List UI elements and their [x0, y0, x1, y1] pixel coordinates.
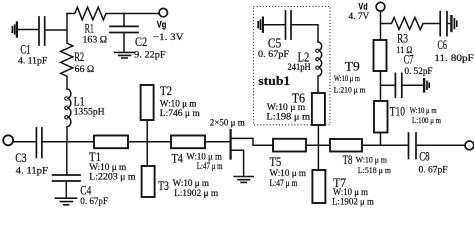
svg-text:T3: T3	[158, 179, 169, 193]
svg-text:0. 52pF: 0. 52pF	[405, 66, 434, 77]
svg-text:T1: T1	[89, 150, 101, 164]
svg-text:W:10 μ m: W:10 μ m	[356, 155, 388, 164]
svg-text:1355pH: 1355pH	[74, 107, 105, 118]
svg-text:L:47 μ m: L:47 μ m	[270, 179, 299, 189]
svg-text:W:10 μ m: W:10 μ m	[410, 106, 437, 115]
svg-text:C8: C8	[419, 149, 429, 163]
svg-text:L:210 μ m: L:210 μ m	[334, 85, 366, 94]
svg-text:T5: T5	[270, 155, 282, 169]
svg-text:L:746 μ m: L:746 μ m	[160, 109, 201, 119]
svg-text:2×50 μ m: 2×50 μ m	[210, 117, 245, 128]
svg-text:−1. 3V: −1. 3V	[153, 32, 184, 43]
svg-text:R3: R3	[397, 32, 408, 46]
svg-text:4. 11pF: 4. 11pF	[18, 56, 48, 67]
svg-text:R2: R2	[74, 50, 84, 64]
svg-text:L:198 μ m: L:198 μ m	[266, 113, 311, 123]
svg-text:Vd: Vd	[358, 2, 367, 12]
svg-text:11. 80pF: 11. 80pF	[434, 53, 474, 64]
svg-text:T9: T9	[345, 59, 360, 73]
svg-text:0. 67pF: 0. 67pF	[258, 49, 290, 60]
svg-text:W:10 μ m: W:10 μ m	[173, 179, 210, 189]
svg-text:W:10 μ m: W:10 μ m	[270, 169, 307, 179]
svg-text:T4: T4	[172, 151, 184, 165]
svg-text:W:10 μ m: W:10 μ m	[186, 152, 222, 162]
svg-text:W:10 μ m: W:10 μ m	[160, 99, 197, 109]
svg-text:0. 67pF: 0. 67pF	[80, 196, 108, 207]
svg-text:163 Ω: 163 Ω	[83, 34, 108, 45]
svg-text:11 Ω: 11 Ω	[396, 45, 412, 56]
svg-text:W:10 μ m: W:10 μ m	[334, 74, 360, 83]
svg-text:9. 22pF: 9. 22pF	[134, 50, 166, 61]
svg-text:C6: C6	[438, 38, 447, 52]
svg-text:T8: T8	[343, 153, 353, 167]
svg-text:T2: T2	[160, 84, 172, 98]
svg-text:4. 7V: 4. 7V	[349, 11, 370, 22]
svg-text:66 Ω: 66 Ω	[75, 64, 95, 75]
svg-text:L:100 μ m: L:100 μ m	[412, 116, 441, 125]
svg-text:stub1: stub1	[258, 74, 290, 88]
svg-text:4. 11pF: 4. 11pF	[16, 165, 49, 176]
svg-text:L:47 μ m: L:47 μ m	[197, 162, 223, 172]
svg-text:L:518 μ m: L:518 μ m	[358, 166, 392, 175]
svg-text:C3: C3	[15, 151, 26, 165]
svg-text:C1: C1	[20, 42, 30, 56]
svg-text:Vg: Vg	[157, 19, 167, 29]
svg-text:241pH: 241pH	[288, 62, 311, 73]
svg-text:C2: C2	[135, 35, 147, 49]
svg-text:L:1902 μ m: L:1902 μ m	[174, 189, 219, 199]
svg-text:L:2203 μ m: L:2203 μ m	[89, 173, 136, 183]
svg-text:0. 67pF: 0. 67pF	[419, 165, 449, 176]
svg-text:L:1902 μ m: L:1902 μ m	[332, 197, 375, 207]
svg-text:T10: T10	[390, 104, 405, 118]
